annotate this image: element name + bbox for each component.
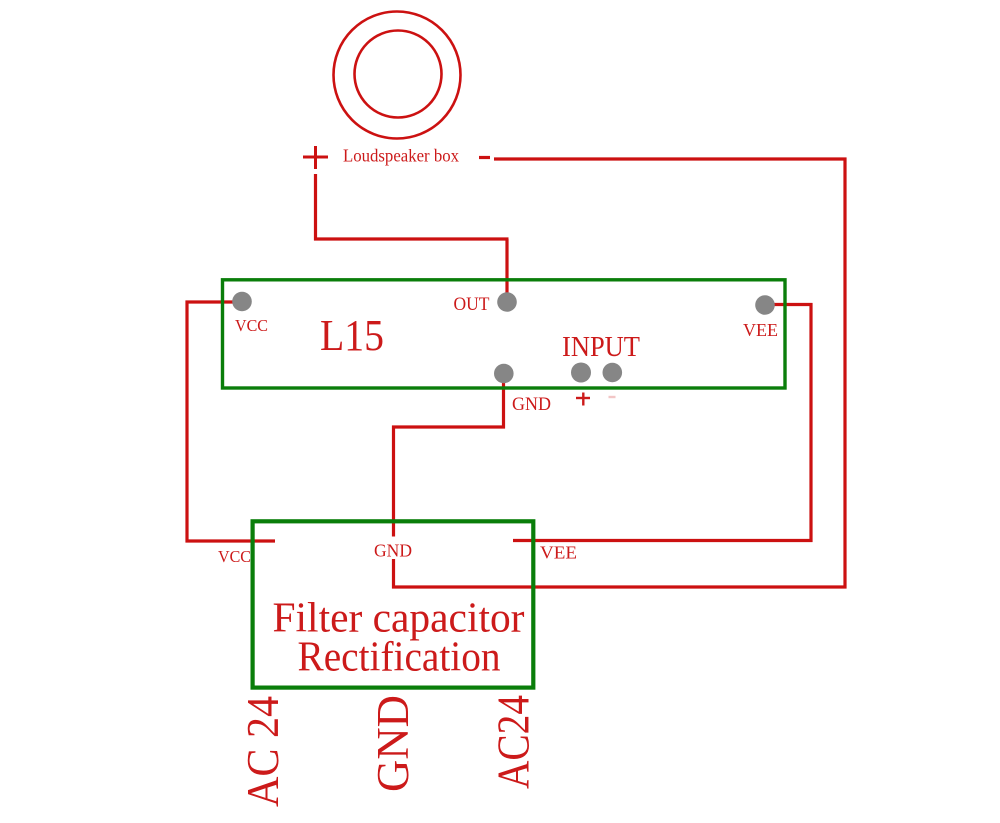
svg-text:INPUT: INPUT	[562, 332, 640, 363]
svg-text:GND: GND	[512, 394, 551, 415]
wire: horizontal to OUT column	[314, 237, 509, 240]
wire: bottom horizontal of GND net	[392, 585, 847, 588]
wire: speaker + down	[314, 174, 317, 241]
pin OUT of L15	[497, 292, 517, 312]
pin VEE of L15	[755, 295, 775, 315]
rectifier module box	[253, 521, 534, 687]
wire: L15 VEE pin to right	[765, 303, 813, 306]
svg-text:VCC: VCC	[218, 547, 251, 566]
svg-text:OUT: OUT	[454, 294, 490, 315]
svg-text:Rectification: Rectification	[298, 634, 501, 681]
svg-text:Loudspeaker box: Loudspeaker box	[343, 146, 459, 166]
svg-text:VCC: VCC	[235, 316, 268, 335]
loudspeaker + terminal mark	[303, 146, 328, 169]
wire: GND net horizontal below L15	[392, 425, 505, 428]
svg-text:AC 24: AC 24	[238, 696, 288, 807]
wire: speaker - to right	[494, 157, 847, 160]
wire: GND net vertical inside rectifier box (lower)	[392, 559, 395, 589]
amplifier module L15 box	[223, 280, 786, 388]
svg-text:GND: GND	[374, 541, 412, 561]
wire: VCC stub into rectifier	[186, 539, 276, 542]
svg-text:VEE: VEE	[743, 320, 778, 340]
wire: right vertical down	[843, 158, 846, 589]
pin INPUT+ of L15	[571, 363, 591, 383]
svg-text:GND: GND	[368, 695, 418, 792]
svg-text:L15: L15	[320, 311, 384, 360]
loudspeaker - terminal mark	[479, 156, 490, 159]
input + mark	[576, 393, 590, 406]
loudspeaker SP1 outer circle	[334, 12, 461, 139]
wire: left vertical VCC rail	[185, 301, 188, 543]
wire: down into L15 OUT pin	[505, 239, 508, 302]
svg-text:VEE: VEE	[540, 543, 577, 563]
wire: right vertical VEE rail	[809, 303, 812, 542]
wire: L15 GND pin down	[502, 374, 505, 429]
input - mark	[609, 396, 616, 398]
loudspeaker SP1 inner circle	[355, 31, 442, 118]
pin VCC of L15	[232, 292, 252, 312]
wire: VEE stub into rectifier	[513, 539, 813, 542]
wire: L15 VCC pin to left	[186, 300, 243, 303]
svg-text:AC24: AC24	[489, 695, 539, 789]
pin INPUT- of L15	[603, 363, 623, 383]
wire: GND net vertical into rectifier box (upper)	[392, 426, 395, 537]
pin GND of L15	[494, 364, 514, 384]
